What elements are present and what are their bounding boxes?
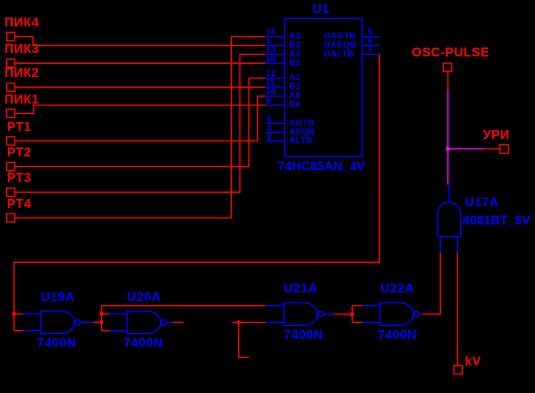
svg-text:U17A: U17A: [465, 195, 499, 209]
U1 pin 5 OAGTB: [324, 27, 380, 41]
U1 pin 9 B0: [265, 95, 300, 109]
port PIK2: [5, 66, 40, 91]
svg-text:ПИК2: ПИК2: [5, 66, 40, 80]
U1 pin 13 A2: [265, 45, 300, 59]
IC U1 74HC85AN_4V: [278, 2, 366, 174]
U1 pin 1 B3: [265, 36, 300, 50]
wire stub U20A bottom input: [102, 330, 110, 332]
U1 pin 6 OAEQB: [324, 36, 380, 50]
svg-text:OSC-PULSE: OSC-PULSE: [412, 46, 490, 60]
svg-text:РТ1: РТ1: [7, 120, 31, 134]
port RT2: [7, 146, 32, 171]
U1 pin 3 AEQB: [266, 122, 315, 136]
AND gate U17A 4081BT_5V (pointing up): [438, 185, 531, 253]
wire RT4 to U1 pin 15: [15, 37, 266, 218]
svg-text:B0: B0: [289, 99, 300, 109]
wire branch to U19A top input: [14, 313, 23, 315]
svg-text:ALTB: ALTB: [289, 135, 312, 145]
svg-text:ПИК3: ПИК3: [5, 42, 40, 56]
wire PIK2 to U1 pin 11: [15, 86, 266, 88]
wire stub U22A top input: [352, 305, 362, 307]
svg-text:kV: kV: [465, 354, 481, 368]
svg-text:УРИ: УРИ: [483, 128, 510, 142]
svg-text:U1: U1: [313, 2, 330, 16]
svg-text:РТ3: РТ3: [7, 171, 31, 185]
junction on magenta net: [446, 147, 450, 151]
svg-text:ПИК1: ПИК1: [5, 92, 40, 106]
svg-text:14: 14: [266, 53, 276, 63]
svg-text:9: 9: [266, 95, 271, 105]
svg-text:7400N: 7400N: [378, 328, 417, 342]
wire PIK3 to U1 pin 14: [15, 62, 266, 64]
junction U20A top input: [100, 312, 104, 316]
NAND U21A 7400N: [266, 282, 335, 342]
wire RT1 to U1 pin 10: [15, 96, 266, 141]
junction U21A bottom input: [237, 320, 241, 324]
vertical tying U20A inputs, turns right at top toward U21A: [102, 306, 266, 331]
U1 pin 4 AGTB: [266, 114, 314, 128]
svg-text:7: 7: [368, 45, 373, 55]
wire U21A bottom input whisker and drop: [232, 321, 265, 323]
port kV: [454, 354, 481, 374]
svg-text:U21A: U21A: [284, 282, 318, 296]
wire highlighted net (magenta) down to U17A output: [447, 89, 449, 184]
wire U1 pin7 down-left rail to U19A inputs: [14, 54, 379, 330]
wire U22A output up to U17A left input: [423, 253, 441, 315]
port URI: [483, 128, 510, 153]
port RT4: [7, 197, 32, 222]
wire RT2 to U1 pin 12: [15, 78, 266, 166]
svg-text:ПИК4: ПИК4: [5, 15, 40, 29]
svg-text:4081BT_5V: 4081BT_5V: [463, 214, 531, 228]
wire RT3 to U1 pin 13: [15, 54, 266, 192]
port OSC-PULSE: [412, 46, 490, 72]
wire magenta branch to URI: [448, 148, 484, 150]
svg-text:U19A: U19A: [41, 290, 75, 304]
svg-text:OALTB: OALTB: [324, 48, 354, 58]
U1 pin 12 A1: [265, 68, 300, 82]
wire OSC-PULSE down (red part): [447, 72, 449, 90]
port PIK1: [5, 92, 40, 117]
svg-text:РТ2: РТ2: [7, 146, 31, 160]
U1 pin 11 B1: [265, 77, 300, 91]
wire stub U22A bottom input: [352, 321, 362, 323]
svg-text:U22A: U22A: [380, 282, 414, 296]
U1 pin 7 OALTB: [324, 45, 380, 59]
wire U20A output dangling: [173, 321, 184, 323]
U1 pin 15 A3: [265, 27, 300, 41]
NAND U19A 7400N: [23, 290, 93, 350]
junction at U19A top input: [12, 312, 16, 316]
port RT3: [7, 171, 32, 196]
wire U19A output to U20A inputs: [93, 321, 102, 323]
wire PIK1 to U1 pin 9: [15, 105, 266, 113]
junction U21A output joins vertical: [350, 312, 354, 316]
wire PIK4 to U1 pin 1: [15, 37, 266, 46]
wire U21A output to U22A inputs: [334, 313, 352, 315]
junction U19A output joins vertical: [100, 320, 104, 324]
svg-text:7400N: 7400N: [37, 336, 76, 350]
NAND U22A 7400N: [362, 282, 422, 342]
NAND U20A 7400N: [110, 290, 173, 350]
svg-text:2: 2: [267, 131, 272, 141]
svg-text:B2: B2: [289, 57, 300, 67]
svg-text:U20A: U20A: [127, 290, 161, 304]
wire red continuation to URI port: [483, 148, 500, 150]
U1 pin 10 A0: [265, 86, 300, 100]
wire stub U20A top input: [102, 313, 110, 315]
port PIK4: [5, 15, 40, 40]
port PIK3: [5, 42, 40, 67]
svg-text:7400N: 7400N: [284, 328, 323, 342]
svg-text:РТ4: РТ4: [7, 197, 31, 211]
vertical tying U22A inputs: [351, 306, 353, 323]
svg-text:7400N: 7400N: [124, 336, 163, 350]
svg-text:74HC85AN_4V: 74HC85AN_4V: [278, 160, 366, 174]
port RT1: [7, 120, 32, 145]
wire kV up to U17A right input: [457, 253, 459, 366]
U1 pin 2 ALTB: [266, 131, 312, 145]
U1 pin 14 B2: [265, 53, 300, 67]
